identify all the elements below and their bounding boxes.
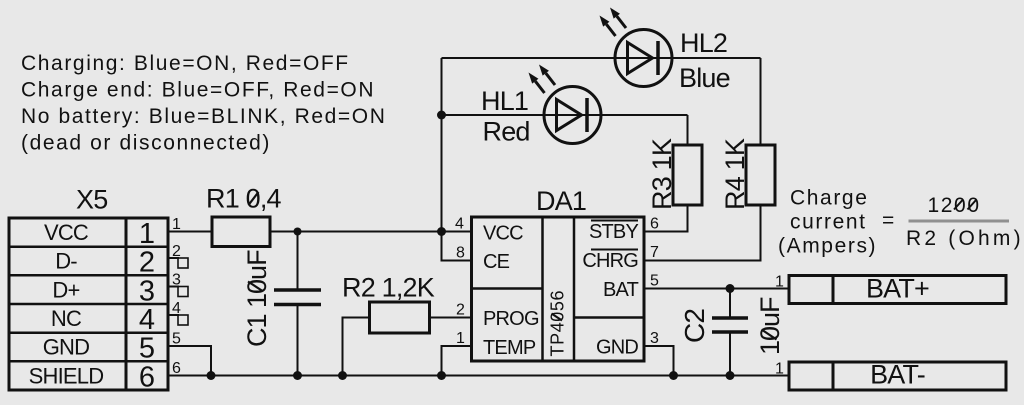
svg-text:7: 7: [650, 244, 659, 261]
svg-text:2: 2: [456, 302, 465, 319]
svg-text:4: 4: [455, 216, 464, 233]
svg-text:SHIELD: SHIELD: [29, 363, 104, 388]
svg-text:BAT: BAT: [603, 279, 639, 301]
formula charge current: [778, 187, 1024, 258]
svg-text:C1 10uF: C1 10uF: [242, 250, 272, 347]
svg-text:5: 5: [172, 331, 181, 348]
svg-text:1: 1: [775, 274, 784, 291]
svg-text:CE: CE: [483, 251, 510, 273]
svg-text:C2: C2: [679, 309, 710, 343]
svg-text:D+: D+: [52, 277, 79, 302]
wire DA1 pin 7 to R4: [644, 205, 761, 261]
LED HL2: [615, 30, 672, 87]
svg-text:5: 5: [650, 273, 659, 290]
svg-text:BAT-: BAT-: [870, 360, 925, 390]
svg-text:3: 3: [650, 330, 659, 347]
node R2 ground junction: [338, 371, 347, 380]
X5 net names: [29, 220, 104, 388]
connector BAT-: [789, 362, 1006, 390]
svg-text:R4 1K: R4 1K: [720, 138, 750, 210]
svg-text:1: 1: [172, 216, 181, 233]
DA1 pin names right: [582, 221, 638, 359]
svg-text:3: 3: [139, 275, 155, 307]
wire DA1 pin 1 to ground: [442, 346, 472, 376]
svg-text:STBY: STBY: [589, 221, 638, 243]
capacitor C2: [712, 289, 748, 376]
wire DA1 pin 5 BAT to BAT+: [644, 288, 789, 290]
node TEMP ground junction: [437, 371, 446, 380]
svg-text:BAT+: BAT+: [866, 274, 929, 304]
svg-text:1200: 1200: [928, 194, 981, 217]
X5 pin 2 stub: [168, 257, 179, 259]
resistor R4: [746, 145, 775, 205]
svg-text:8: 8: [456, 245, 465, 262]
note text block: [21, 52, 387, 155]
wire VCC node up to HL1 node: [441, 58, 443, 232]
svg-text:Charge end: Blue=OFF, Red=ON: Charge end: Blue=OFF, Red=ON: [21, 79, 375, 102]
node VCC junction: [437, 227, 446, 236]
node pin5 rail junction: [207, 371, 216, 380]
capacitor C1: [274, 232, 321, 376]
wire R1 to DA1 pin 4: [270, 231, 472, 233]
svg-text:HL1: HL1: [481, 86, 528, 116]
svg-text:1: 1: [456, 330, 465, 347]
svg-text:Red: Red: [483, 117, 530, 147]
wire R2 to DA1 pin 2: [430, 317, 472, 319]
svg-text:VCC: VCC: [483, 223, 523, 245]
node C2 rail junction: [726, 371, 735, 380]
resistor R1: [212, 217, 270, 247]
svg-text:GND: GND: [43, 335, 90, 360]
wire HL2 down to R4: [760, 58, 762, 145]
wire HL1 row: [442, 114, 688, 116]
svg-text:CHRG: CHRG: [582, 250, 638, 272]
wire top rail to HL2: [442, 57, 761, 59]
X5 pin 4 stub: [168, 314, 179, 316]
svg-text:6: 6: [139, 361, 155, 393]
IC DA1 box: [472, 217, 645, 361]
X5 pad numbers: [139, 218, 155, 393]
no-connect square pin 2: [178, 258, 188, 268]
node HL1 junction: [437, 111, 446, 120]
svg-text:10uF: 10uF: [755, 297, 785, 355]
slashed zero C2 10uF: [762, 330, 777, 340]
slashed zeros 1200: [954, 200, 963, 210]
svg-text:GND: GND: [596, 337, 638, 359]
svg-text:X5: X5: [76, 185, 107, 215]
slashed zero C1: [248, 282, 263, 292]
fraction bar: [909, 220, 1010, 223]
svg-text:DA1: DA1: [536, 186, 586, 216]
node C1 rail junction: [293, 371, 302, 380]
node GND rail junction: [669, 371, 678, 380]
svg-text:4: 4: [139, 304, 155, 336]
slashed zero R1: [249, 192, 259, 205]
connector X5 table: [9, 218, 168, 390]
svg-text:TP4056: TP4056: [548, 290, 568, 357]
svg-text:Charge: Charge: [790, 187, 868, 210]
svg-text:NC: NC: [51, 306, 82, 331]
svg-text:HL2: HL2: [680, 28, 727, 58]
no-connect square pin 3: [178, 287, 188, 297]
wire DA1 pin 8: [442, 232, 472, 261]
svg-text:R1 0,4: R1 0,4: [206, 184, 282, 214]
wire X5 pin5 to ground rail: [168, 346, 211, 376]
connector BAT+: [789, 276, 1006, 304]
X5 pin 3 stub: [168, 286, 179, 288]
ground rail wire: [168, 375, 789, 377]
wire X5 pin1 to R1: [168, 231, 212, 233]
node C2 top junction: [726, 284, 735, 293]
svg-text:PROG: PROG: [483, 308, 539, 330]
overline STBY: [591, 220, 638, 222]
svg-text:6: 6: [650, 216, 659, 233]
svg-text:=: =: [882, 209, 896, 232]
slashed zero TP4056: [552, 314, 563, 321]
svg-text:R3 1K: R3 1K: [647, 138, 677, 210]
svg-text:(dead or disconnected): (dead or disconnected): [21, 132, 271, 155]
svg-text:VCC: VCC: [44, 220, 89, 245]
wire R2 left to ground: [343, 318, 370, 376]
svg-text:Charging: Blue=ON, Red=OFF: Charging: Blue=ON, Red=OFF: [21, 52, 350, 75]
svg-text:5: 5: [139, 333, 155, 365]
overline CHRG: [591, 249, 638, 251]
svg-text:1: 1: [775, 361, 784, 378]
resistor R3: [673, 145, 702, 205]
node R1/C1 junction: [294, 228, 302, 236]
svg-text:2: 2: [139, 247, 155, 279]
HL1 light arrows: [529, 65, 556, 94]
svg-text:No battery: Blue=BLINK, Red=ON: No battery: Blue=BLINK, Red=ON: [21, 105, 387, 128]
svg-text:D-: D-: [55, 249, 77, 274]
resistor R2: [370, 302, 430, 333]
svg-text:1: 1: [139, 218, 155, 250]
svg-text:R2 1,2K: R2 1,2K: [342, 273, 435, 303]
LED HL1: [544, 87, 601, 144]
svg-text:R2 (Ohm): R2 (Ohm): [906, 227, 1024, 250]
svg-text:(Ampers): (Ampers): [778, 235, 877, 258]
no-connect square pin 4: [178, 315, 188, 325]
wire HL1 row down to R3: [687, 115, 689, 145]
wire DA1 pin 3 GND to rail: [644, 346, 674, 376]
svg-text:TEMP: TEMP: [483, 337, 536, 359]
svg-text:current: current: [790, 211, 867, 234]
svg-text:6: 6: [172, 360, 181, 377]
wire DA1 pin 6 to R3: [644, 205, 688, 232]
HL2 light arrows: [600, 8, 627, 37]
svg-text:Blue: Blue: [679, 63, 730, 93]
